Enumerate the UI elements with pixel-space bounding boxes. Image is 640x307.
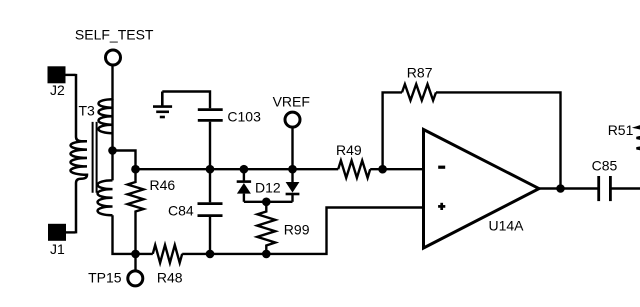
node center tap xyxy=(108,146,117,155)
wire D12 bottom xyxy=(244,201,293,203)
wire secondary middle xyxy=(111,99,113,180)
node R99 bottom xyxy=(262,250,271,259)
node C103/C84 bus xyxy=(206,165,215,174)
op-amp U14A xyxy=(424,130,540,249)
svg-text:R49: R49 xyxy=(336,142,362,158)
wire secondary bottom to bus xyxy=(113,215,136,254)
svg-text:D12: D12 xyxy=(255,180,281,196)
wire J1 stub xyxy=(66,231,76,233)
svg-text:U14A: U14A xyxy=(489,218,525,234)
svg-text:R99: R99 xyxy=(284,222,310,238)
connector J1 xyxy=(48,224,66,257)
svg-text:J1: J1 xyxy=(50,241,65,257)
transformer T3 core xyxy=(93,122,97,193)
wire main bus left xyxy=(136,168,339,170)
wire bottom bus to plus input xyxy=(182,208,423,254)
resistor R48 xyxy=(153,245,183,286)
svg-text:R87: R87 xyxy=(407,64,433,80)
wire bus to C84 xyxy=(209,169,211,202)
node output junction xyxy=(556,184,565,193)
wire output xyxy=(538,187,599,189)
wire C103 to bus xyxy=(209,122,211,170)
wire C84 to bottom bus xyxy=(209,217,211,254)
transformer T3 secondary top winding xyxy=(99,99,113,133)
node R46 top xyxy=(131,165,140,174)
svg-text:R51: R51 xyxy=(608,122,634,138)
svg-text:C103: C103 xyxy=(227,108,261,124)
wire SELF_TEST stem xyxy=(111,65,113,100)
svg-text:VREF: VREF xyxy=(273,94,310,110)
diode D12 left xyxy=(237,169,251,202)
capacitor C84 xyxy=(168,203,223,219)
svg-text:SELF_TEST: SELF_TEST xyxy=(75,27,154,43)
resistor R87 xyxy=(402,64,436,100)
node feedback junction xyxy=(378,165,387,174)
node D12 left top xyxy=(240,165,249,174)
wire C85 right xyxy=(610,187,640,189)
wire feedback up and right xyxy=(383,92,402,169)
diode D12 right xyxy=(255,169,299,202)
svg-text:T3: T3 xyxy=(79,103,96,119)
capacitor C103 xyxy=(198,108,261,124)
node VREF bus xyxy=(288,165,297,174)
resistor R51 xyxy=(608,117,640,156)
svg-text:C84: C84 xyxy=(168,203,194,219)
resistor R49 xyxy=(336,142,370,178)
node C84 bottom xyxy=(206,250,215,259)
wire main bus right xyxy=(370,168,423,170)
transformer T3 secondary bottom winding xyxy=(98,180,113,215)
wire center tap xyxy=(113,151,136,170)
wire ground to C103 xyxy=(162,92,210,109)
terminal VREF xyxy=(273,94,310,128)
transformer T3 primary winding xyxy=(70,74,87,234)
pin minus xyxy=(438,166,445,169)
node R46 bottom / TP15 xyxy=(131,250,140,259)
ground xyxy=(153,92,172,118)
resistor R46 xyxy=(128,169,176,254)
wire VREF stem xyxy=(291,127,293,169)
svg-text:J2: J2 xyxy=(50,82,65,98)
node D12 bottom center xyxy=(262,198,271,207)
wire feedback to output xyxy=(436,92,561,188)
svg-text:R46: R46 xyxy=(150,177,176,193)
capacitor C85 xyxy=(592,157,618,201)
svg-text:R48: R48 xyxy=(157,270,183,286)
connector J2 xyxy=(48,66,66,98)
terminal TP15 xyxy=(88,254,143,286)
wire bottom bus left xyxy=(136,253,153,255)
resistor R99 xyxy=(257,202,309,254)
wire J2 stub xyxy=(66,74,76,76)
terminal SELF_TEST xyxy=(75,27,154,66)
pin plus xyxy=(438,203,445,210)
svg-text:TP15: TP15 xyxy=(88,270,122,286)
svg-text:C85: C85 xyxy=(592,157,618,173)
